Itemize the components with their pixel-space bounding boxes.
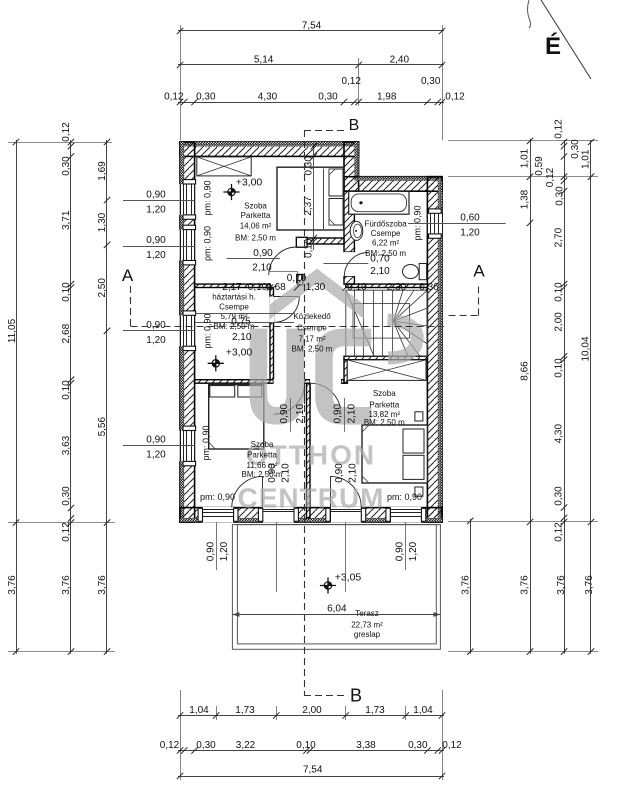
wall: utility room east wall bbox=[270, 288, 274, 380]
extension line top middle vertical bbox=[358, 58, 360, 106]
svg-text:10,04: 10,04 bbox=[581, 336, 592, 361]
svg-text:0,90: 0,90 bbox=[146, 190, 166, 201]
svg-text:É: É bbox=[545, 32, 561, 60]
wall: stub connecting stair wall to hall wall bbox=[344, 360, 347, 384]
terrace door D2 bottom wall bbox=[330, 507, 361, 523]
svg-text:1,20: 1,20 bbox=[146, 250, 166, 261]
svg-text:Parketta: Parketta bbox=[241, 211, 271, 220]
svg-text:1,20: 1,20 bbox=[146, 205, 166, 216]
svg-text:+3,05: +3,05 bbox=[335, 572, 362, 584]
svg-text:3,76: 3,76 bbox=[7, 575, 18, 595]
wall: stairs south wall (0.10) bbox=[344, 356, 427, 359]
guide stubs bottom dim row bbox=[216, 706, 218, 720]
svg-text:2,70: 2,70 bbox=[554, 227, 565, 247]
wardrobe bedroom2 (X-box) bbox=[347, 360, 426, 381]
svg-text:4,30: 4,30 bbox=[258, 92, 278, 103]
svg-text:pm: 0,90: pm: 0,90 bbox=[203, 313, 213, 348]
svg-text:pm: 0,90: pm: 0,90 bbox=[201, 425, 211, 460]
window Wb1 bottom wall bbox=[203, 507, 234, 523]
svg-text:0,10: 0,10 bbox=[61, 380, 72, 400]
svg-text:3,76: 3,76 bbox=[97, 575, 108, 595]
svg-text:2,40: 2,40 bbox=[390, 55, 410, 66]
svg-text:7,54: 7,54 bbox=[303, 765, 323, 776]
svg-text:2,68: 2,68 bbox=[61, 323, 72, 343]
terrace door D2 swing arc bbox=[330, 476, 361, 507]
door bedroom1 swing arc bbox=[269, 247, 297, 275]
svg-text:Parketta: Parketta bbox=[369, 400, 399, 409]
svg-text:0,30: 0,30 bbox=[61, 486, 72, 506]
svg-text:0,30: 0,30 bbox=[555, 186, 566, 206]
svg-text:6,04: 6,04 bbox=[327, 604, 347, 615]
extension line building top right bbox=[448, 140, 598, 142]
svg-text:B: B bbox=[350, 686, 362, 706]
bed bedroom3 bbox=[209, 385, 264, 449]
svg-text:0,10: 0,10 bbox=[304, 238, 315, 258]
leader window Wb2 bbox=[405, 522, 407, 570]
label door bathroom 0,70/2,10 bbox=[324, 263, 369, 265]
svg-text:2,10: 2,10 bbox=[370, 266, 390, 277]
svg-text:0,30: 0,30 bbox=[318, 92, 338, 103]
level marker +3.05 terrace bbox=[324, 581, 333, 590]
svg-text:A: A bbox=[473, 261, 485, 280]
svg-text:11,05: 11,05 bbox=[7, 318, 18, 343]
svg-text:Szoba: Szoba bbox=[244, 202, 267, 211]
svg-text:0,90: 0,90 bbox=[146, 235, 166, 246]
extension line top-right corner vertical bbox=[442, 25, 444, 140]
svg-text:3,76: 3,76 bbox=[520, 575, 531, 595]
window W2 left wall bbox=[179, 230, 195, 261]
svg-text:5,14: 5,14 bbox=[254, 55, 274, 66]
wall: bedroom1/utility separating wall bbox=[195, 284, 270, 287]
svg-text:5,56: 5,56 bbox=[97, 417, 108, 437]
svg-text:1,98: 1,98 bbox=[377, 92, 397, 103]
svg-text:3,38: 3,38 bbox=[356, 740, 376, 751]
svg-text:7,54: 7,54 bbox=[302, 21, 322, 32]
svg-text:0,90: 0,90 bbox=[267, 463, 278, 483]
bottom dim chain detail row bbox=[178, 750, 444, 752]
svg-text:0,90: 0,90 bbox=[206, 541, 217, 561]
door utility swing arc bbox=[274, 297, 300, 323]
svg-text:0,10: 0,10 bbox=[554, 358, 565, 378]
door lower-left bedroom (0.90) opening bbox=[274, 379, 305, 384]
wall: bedroom1 recess wall vertical upper jamb bbox=[296, 237, 307, 247]
nightstand bedroom2 lower bbox=[415, 487, 423, 496]
extension line terrace bottom right bbox=[448, 651, 598, 653]
washbasin bbox=[350, 221, 363, 240]
svg-text:1,04: 1,04 bbox=[413, 705, 433, 716]
svg-text:0,90: 0,90 bbox=[395, 541, 406, 561]
bathtub bbox=[349, 191, 409, 214]
svg-text:22,73 m²: 22,73 m² bbox=[351, 620, 383, 629]
label door lower-left 0,90/2,10 rotated bbox=[290, 398, 292, 432]
door bathroom (0.70) opening in west wall bbox=[343, 252, 355, 276]
right dim chain 1,01 1,38 8,66 3,76 bbox=[530, 139, 532, 654]
level marker +3.00 utility bbox=[212, 359, 221, 368]
wall: hall south wall middle segment bbox=[305, 380, 311, 384]
svg-text:0,12: 0,12 bbox=[554, 119, 565, 139]
wall: hall south wall west segment bbox=[195, 380, 274, 384]
wall: bathroom west wall bbox=[344, 191, 354, 252]
svg-text:Csempe: Csempe bbox=[297, 323, 327, 332]
wall: top exterior wall of main block bbox=[180, 142, 359, 156]
svg-text:1,69: 1,69 bbox=[97, 161, 108, 181]
svg-text:0,12: 0,12 bbox=[442, 740, 462, 751]
window W1 left wall bbox=[179, 184, 195, 215]
svg-text:0,12: 0,12 bbox=[341, 76, 361, 87]
svg-text:CENTRUM: CENTRUM bbox=[238, 483, 385, 514]
svg-text:BM: 2,50 m: BM: 2,50 m bbox=[364, 418, 405, 427]
svg-text:0,30: 0,30 bbox=[554, 486, 565, 506]
svg-text:0,90: 0,90 bbox=[279, 404, 290, 424]
svg-text:2,10: 2,10 bbox=[281, 463, 292, 483]
svg-text:0,90: 0,90 bbox=[334, 463, 345, 483]
svg-text:pm: 0,90: pm: 0,90 bbox=[200, 492, 235, 502]
svg-text:7,17 m²: 7,17 m² bbox=[298, 335, 325, 344]
svg-text:pm: 0,90: pm: 0,90 bbox=[203, 180, 213, 215]
door bathroom swing arc bbox=[344, 253, 368, 277]
extension line building bottom left bbox=[8, 522, 115, 524]
svg-text:pm: 0,90: pm: 0,90 bbox=[203, 226, 213, 261]
wall: hall south wall east segment bbox=[341, 380, 344, 384]
svg-text:0,30: 0,30 bbox=[61, 156, 72, 176]
interior vertical dim (0,30 2,37 0,10) bbox=[313, 146, 315, 250]
right dim chain detail bbox=[564, 140, 566, 654]
svg-text:0,30: 0,30 bbox=[421, 76, 441, 87]
label recess dim 0,10 with leader bbox=[269, 271, 298, 273]
svg-text:BM: 2,50 m: BM: 2,50 m bbox=[235, 234, 276, 243]
svg-text:0,90: 0,90 bbox=[333, 404, 344, 424]
svg-text:0,30: 0,30 bbox=[196, 92, 216, 103]
svg-text:0,10: 0,10 bbox=[347, 282, 367, 293]
svg-text:0,10: 0,10 bbox=[248, 282, 268, 293]
svg-text:0,90: 0,90 bbox=[146, 320, 166, 331]
top dim chain detail row bbox=[178, 102, 444, 104]
wall: bathroom top exterior wall bbox=[344, 177, 442, 192]
svg-text:4,30: 4,30 bbox=[554, 424, 565, 444]
svg-text:2,10: 2,10 bbox=[348, 463, 359, 483]
svg-text:pm: 0,90: pm: 0,90 bbox=[387, 492, 422, 502]
svg-text:3,76: 3,76 bbox=[461, 575, 472, 595]
left dim chain window axes bbox=[106, 140, 108, 654]
window W3 left wall bbox=[179, 315, 195, 346]
svg-text:3,63: 3,63 bbox=[61, 435, 72, 455]
terrace door D1 swing arc bbox=[232, 476, 263, 507]
svg-text:0,10: 0,10 bbox=[61, 282, 72, 302]
svg-text:0,12: 0,12 bbox=[445, 92, 465, 103]
svg-text:+3,00: +3,00 bbox=[226, 347, 253, 359]
terrace width dimension 6.04 bbox=[232, 614, 440, 616]
svg-text:Csempe: Csempe bbox=[371, 229, 401, 238]
svg-text:0,12: 0,12 bbox=[554, 522, 565, 542]
terrace outline bbox=[232, 525, 440, 650]
svg-text:Szoba: Szoba bbox=[373, 389, 396, 398]
section line B-B bbox=[304, 130, 345, 132]
label window W1 0,90/1,20 bbox=[123, 200, 195, 202]
svg-text:BM: 2,50 m: BM: 2,50 m bbox=[292, 344, 333, 353]
svg-text:pm: 0,90: pm: 0,90 bbox=[413, 205, 423, 240]
svg-text:2,00: 2,00 bbox=[554, 312, 565, 332]
svg-text:8,66: 8,66 bbox=[520, 361, 531, 381]
svg-text:2,30: 2,30 bbox=[387, 282, 407, 293]
svg-text:2,17: 2,17 bbox=[222, 282, 242, 293]
extension line top-left corner vertical bbox=[180, 25, 182, 140]
svg-text:B: B bbox=[349, 117, 360, 134]
wall: bedroom1 recess wall horizontal bbox=[297, 238, 344, 244]
leader terrace door D2 bbox=[345, 522, 347, 592]
svg-text:2,00: 2,00 bbox=[302, 705, 322, 716]
north arrow bbox=[541, 0, 591, 79]
label window W4 0,90/1,20 bbox=[123, 445, 195, 447]
left dim chain detail bbox=[70, 140, 72, 654]
door lower-right bedroom swing arc bbox=[310, 383, 341, 414]
wardrobe bedroom1 (X-box) bbox=[197, 157, 251, 176]
label door bedroom1 0,90/2,10 bbox=[227, 258, 280, 260]
svg-text:1,20: 1,20 bbox=[408, 541, 419, 561]
extension line terrace bottom left bbox=[8, 651, 115, 653]
bottom dim chain window axes bbox=[178, 715, 444, 717]
svg-text:Szoba: Szoba bbox=[251, 440, 274, 449]
svg-text:2,10: 2,10 bbox=[232, 332, 252, 343]
door lower-left bedroom swing arc bbox=[274, 383, 305, 414]
label window W3 0,90/1,20 bbox=[123, 330, 195, 332]
wall: left exterior wall bbox=[180, 142, 195, 522]
svg-text:1,01: 1,01 bbox=[520, 148, 531, 168]
window W4 left wall bbox=[179, 431, 195, 462]
svg-text:1,30: 1,30 bbox=[97, 212, 108, 232]
svg-text:3,22: 3,22 bbox=[236, 740, 256, 751]
svg-text:0,12: 0,12 bbox=[61, 122, 72, 142]
svg-text:Terasz: Terasz bbox=[355, 609, 379, 618]
svg-text:3,76: 3,76 bbox=[61, 575, 72, 595]
label door utility 0,75/2,10 bbox=[195, 313, 294, 315]
svg-text:1,20: 1,20 bbox=[146, 335, 166, 346]
wall: right exterior wall bbox=[427, 177, 442, 522]
top dim chain 7,54 bbox=[178, 30, 444, 32]
top dim chain 5,14 / 2,40 bbox=[178, 64, 444, 66]
svg-text:1,20: 1,20 bbox=[146, 450, 166, 461]
level marker +3.00 bedroom1 bbox=[227, 188, 236, 197]
svg-text:1,01: 1,01 bbox=[581, 149, 592, 169]
svg-text:0,59: 0,59 bbox=[534, 156, 545, 176]
svg-text:1,20: 1,20 bbox=[460, 228, 480, 239]
svg-text:0,12: 0,12 bbox=[61, 522, 72, 542]
svg-text:0,90: 0,90 bbox=[146, 435, 166, 446]
svg-text:0,10: 0,10 bbox=[554, 282, 565, 302]
wall: bathroom south wall (0.10) bbox=[346, 284, 428, 287]
window bathroom right wall bbox=[427, 213, 442, 234]
svg-text:0,10: 0,10 bbox=[296, 740, 316, 751]
svg-text:0,70: 0,70 bbox=[370, 254, 390, 265]
terrace door D1 bottom wall bbox=[263, 507, 294, 523]
extension line bottom-right corner vertical bbox=[442, 690, 444, 780]
svg-text:0,75: 0,75 bbox=[231, 317, 251, 328]
wall: top-right notch vertical wall bbox=[344, 142, 359, 191]
svg-text:0,12: 0,12 bbox=[164, 92, 184, 103]
window Wb2 bottom wall bbox=[390, 507, 421, 523]
right dim chain terrace 3,76 bbox=[470, 519, 472, 654]
svg-text:0,10: 0,10 bbox=[287, 273, 307, 284]
svg-text:14,06 m²: 14,06 m² bbox=[240, 222, 272, 231]
label bathroom window 0,60/1,20 bbox=[408, 223, 506, 225]
bottom dim chain 7,54 bbox=[178, 776, 444, 778]
right dim chain 1,01 10,04 3,76 bbox=[590, 140, 592, 654]
svg-text:2,50: 2,50 bbox=[97, 278, 108, 298]
svg-text:Csempe: Csempe bbox=[219, 302, 249, 311]
wall: bottom exterior wall bbox=[180, 508, 442, 522]
svg-text:+3,00: +3,00 bbox=[236, 177, 263, 189]
label door lower-right 0,90/2,10 rotated bbox=[344, 398, 346, 432]
leader terrace door D1 bbox=[276, 522, 278, 592]
door lower-right bedroom (0.90) opening bbox=[310, 379, 341, 384]
toilet bbox=[419, 264, 426, 280]
label window W2 0,90/1,20 bbox=[123, 246, 195, 248]
svg-text:0,68: 0,68 bbox=[266, 282, 286, 293]
svg-text:A: A bbox=[122, 266, 134, 285]
svg-text:3,76: 3,76 bbox=[584, 575, 595, 595]
svg-text:3,76: 3,76 bbox=[556, 575, 567, 595]
svg-text:0,30: 0,30 bbox=[570, 139, 581, 159]
svg-text:1,20: 1,20 bbox=[219, 541, 230, 561]
svg-text:3,71: 3,71 bbox=[61, 210, 72, 230]
svg-text:0,90: 0,90 bbox=[253, 248, 273, 259]
extension line building bottom right bbox=[448, 521, 598, 523]
wall: bedroom1 recess wall vertical lower stub bbox=[297, 275, 303, 285]
extension line bathroom top right bbox=[448, 176, 598, 178]
extension line bottom-left corner vertical bbox=[180, 690, 182, 780]
door bedroom1 (0.90) opening in hall north wall bbox=[274, 284, 298, 289]
svg-text:greslap: greslap bbox=[354, 630, 381, 639]
svg-text:Parketta: Parketta bbox=[247, 450, 277, 459]
svg-text:1,04: 1,04 bbox=[189, 705, 209, 716]
leader window Wb1 bbox=[216, 522, 218, 570]
svg-text:1,73: 1,73 bbox=[365, 705, 385, 716]
svg-text:6,22 m²: 6,22 m² bbox=[372, 238, 399, 247]
svg-text:Fürdőszoba: Fürdőszoba bbox=[364, 220, 407, 229]
svg-text:1,38: 1,38 bbox=[520, 189, 531, 209]
svg-text:0,30: 0,30 bbox=[408, 740, 428, 751]
extension line building top left bbox=[8, 142, 112, 144]
svg-text:0,12: 0,12 bbox=[545, 167, 556, 187]
svg-text:1,30: 1,30 bbox=[306, 282, 326, 293]
door utility room (0.75) opening bbox=[269, 297, 274, 323]
svg-text:0,12: 0,12 bbox=[160, 740, 180, 751]
svg-text:0,36: 0,36 bbox=[419, 282, 439, 293]
stairs bbox=[346, 290, 428, 356]
nightstand bedroom2 upper bbox=[415, 412, 423, 421]
bed bedroom1 bbox=[277, 167, 344, 230]
svg-text:Közlekedő: Közlekedő bbox=[293, 312, 331, 321]
svg-text:0,60: 0,60 bbox=[460, 213, 480, 224]
svg-text:háztartási h.: háztartási h. bbox=[212, 293, 256, 302]
svg-text:0,30: 0,30 bbox=[196, 740, 216, 751]
watermark Otthon Centrum logo bbox=[238, 269, 418, 514]
wall: central wall between lower rooms (0.10) bbox=[307, 383, 311, 518]
svg-text:2,10: 2,10 bbox=[347, 404, 358, 424]
svg-text:1,73: 1,73 bbox=[235, 705, 255, 716]
left dim chain overall 11,05 / 3,76 bbox=[16, 140, 18, 654]
bed bedroom2 bbox=[362, 425, 427, 483]
